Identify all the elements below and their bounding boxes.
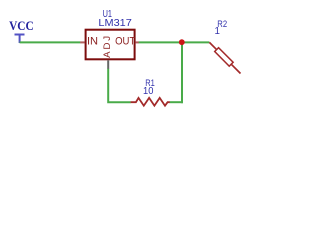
wire ADJ down and right to R1 <box>108 69 131 102</box>
wire VCC to IN pin <box>20 41 81 43</box>
pin ADJ stub (gray) <box>107 60 109 69</box>
svg-text:1: 1 <box>214 26 219 37</box>
svg-text:LM317: LM317 <box>98 18 132 29</box>
svg-text:VCC: VCC <box>9 19 34 33</box>
pin OUT stub <box>136 41 139 43</box>
wire R1 to right riser <box>170 101 183 103</box>
pin IN stub <box>80 41 84 43</box>
regulator U1 body <box>86 30 135 60</box>
resistor R1 (zigzag) <box>131 98 170 106</box>
svg-text:10: 10 <box>143 86 154 97</box>
svg-text:OUT: OUT <box>115 36 135 48</box>
svg-text:ADJ: ADJ <box>102 36 113 58</box>
resistor R2 (diagonal body) <box>209 42 240 73</box>
wire riser junction to bottom <box>181 41 183 103</box>
junction node <box>179 39 185 45</box>
svg-text:IN: IN <box>87 36 98 48</box>
power flag VCC <box>15 35 25 44</box>
wire OUT to junction and to R2 <box>139 41 210 43</box>
